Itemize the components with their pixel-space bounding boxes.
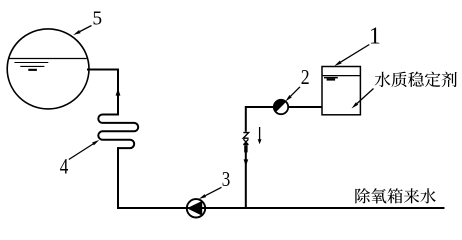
wire pump P2 to tank T1 bbox=[288, 106, 322, 108]
injection valve V (zigzag + hourglass) bbox=[243, 133, 248, 153]
pump P2 (metering pump, half-filled circle) bbox=[274, 100, 288, 114]
label 3 bbox=[199, 169, 230, 199]
wire tank T5 outlet to coil (with up arrow) bbox=[87, 70, 120, 116]
flow direction arrow (short, beside valve) bbox=[258, 127, 262, 144]
svg-text:3: 3 bbox=[222, 169, 231, 192]
pump P3 (circle with filled left-pointing triangle) bbox=[187, 199, 205, 217]
label 1 bbox=[334, 24, 381, 66]
dosing line: branch corner to main pipe bbox=[246, 107, 281, 208]
coil (heat exchanger) E4 bbox=[98, 115, 138, 149]
label: chemical name (water quality stabilizer) bbox=[352, 72, 457, 109]
svg-text:2: 2 bbox=[301, 67, 310, 90]
label: feed water from deaerator tank bbox=[355, 188, 435, 203]
flow arrow on dosing line (down) bbox=[244, 159, 249, 166]
wire coil to bottom main pipe bbox=[117, 147, 119, 208]
main pipe (bottom horizontal) bbox=[117, 207, 445, 209]
tank T5 (spherical tank) bbox=[7, 29, 89, 109]
svg-text:5: 5 bbox=[92, 8, 102, 29]
label 4 bbox=[60, 140, 100, 179]
tank T1 (chemical tank) bbox=[322, 67, 360, 115]
svg-text:1: 1 bbox=[369, 24, 381, 50]
label 2 bbox=[285, 67, 309, 102]
svg-text:4: 4 bbox=[60, 154, 69, 179]
label 5 bbox=[73, 8, 102, 35]
